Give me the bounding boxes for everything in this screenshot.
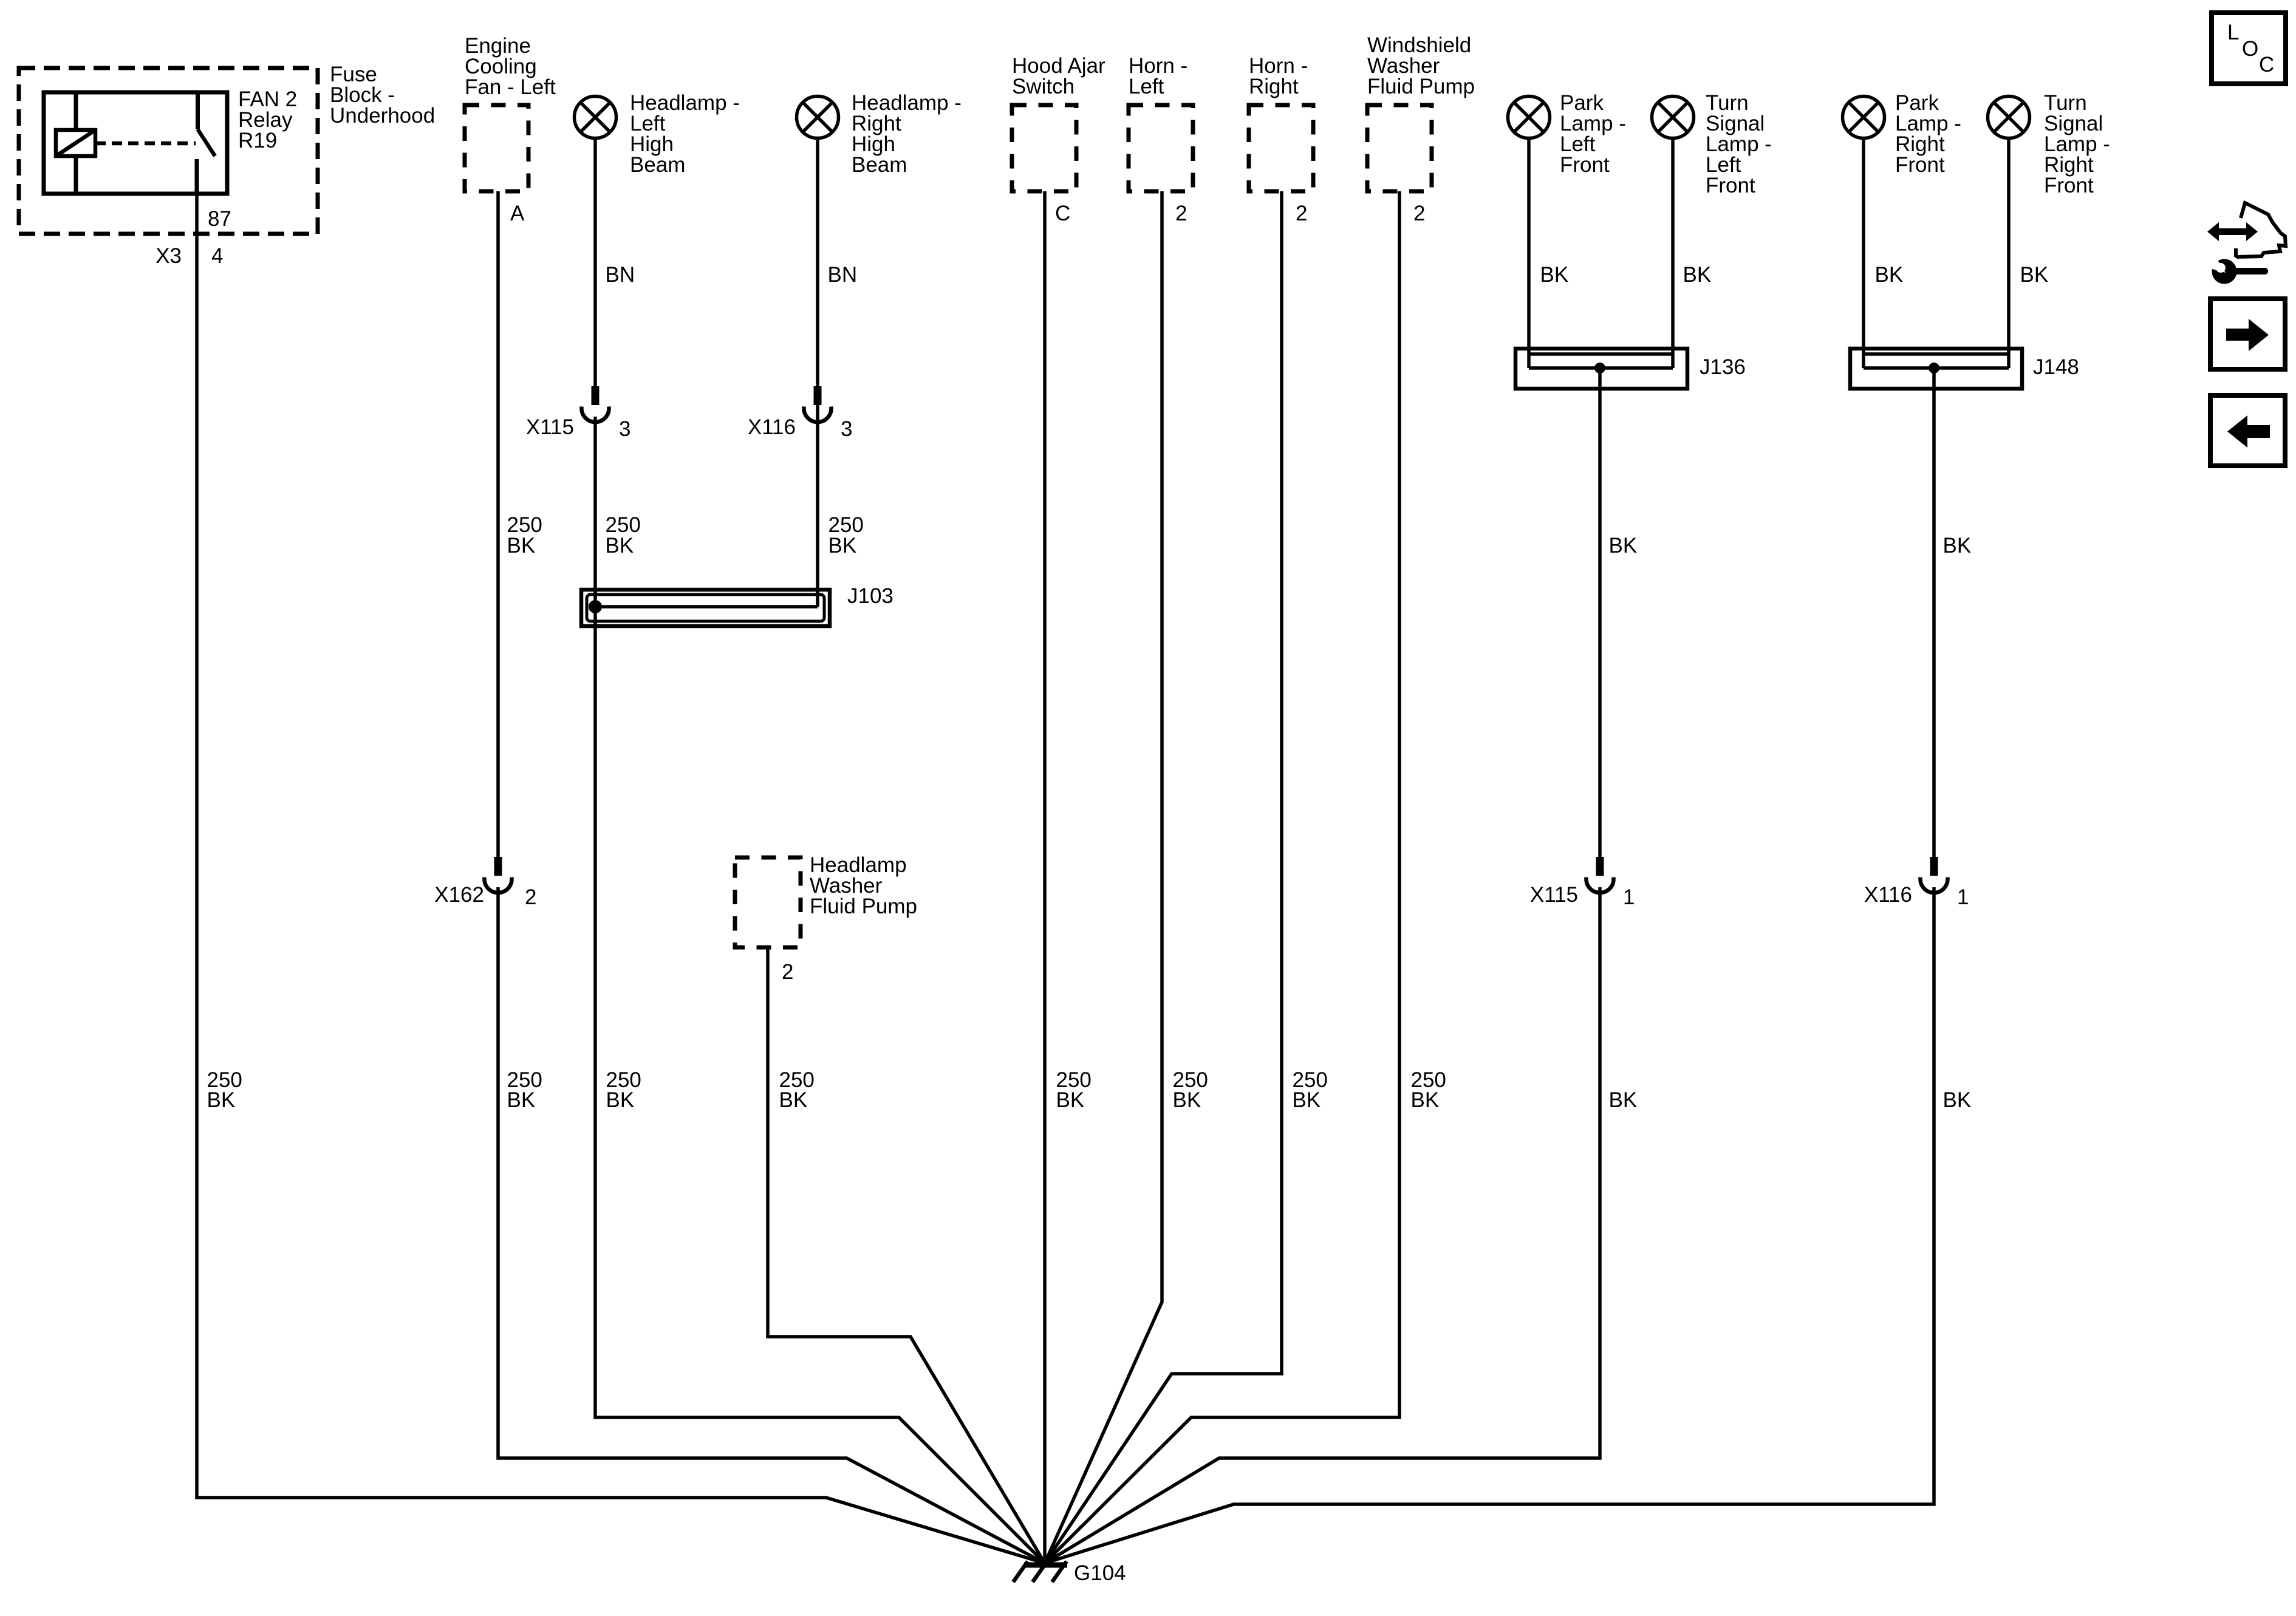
svg-text:BK: BK xyxy=(1173,1088,1201,1112)
svg-text:87: 87 xyxy=(208,207,231,231)
svg-text:3: 3 xyxy=(619,417,630,441)
svg-text:2: 2 xyxy=(1175,202,1187,225)
svg-text:L: L xyxy=(2227,21,2239,44)
svg-text:BK: BK xyxy=(1540,263,1569,287)
svg-text:BK: BK xyxy=(1411,1088,1440,1112)
svg-text:X115: X115 xyxy=(526,415,574,439)
svg-text:J103: J103 xyxy=(847,584,893,608)
svg-text:J148: J148 xyxy=(2033,355,2079,379)
svg-text:Fan - Left: Fan - Left xyxy=(465,75,556,99)
svg-text:4: 4 xyxy=(211,244,223,268)
svg-text:BK: BK xyxy=(1875,263,1904,287)
svg-text:C: C xyxy=(2259,53,2274,77)
svg-text:A: A xyxy=(510,202,525,225)
svg-text:Front: Front xyxy=(2044,174,2094,197)
svg-text:R19: R19 xyxy=(238,129,277,152)
svg-text:Right: Right xyxy=(1249,75,1299,98)
svg-text:BK: BK xyxy=(606,1088,635,1112)
svg-text:BK: BK xyxy=(2020,263,2049,287)
svg-text:Left: Left xyxy=(1129,75,1164,98)
svg-text:2: 2 xyxy=(782,960,793,984)
svg-text:X116: X116 xyxy=(1864,883,1912,907)
svg-text:Fluid Pump: Fluid Pump xyxy=(1367,75,1475,98)
svg-text:X3: X3 xyxy=(155,244,182,268)
svg-text:Beam: Beam xyxy=(852,153,907,177)
svg-text:BK: BK xyxy=(1683,263,1712,287)
svg-text:1: 1 xyxy=(1623,885,1635,909)
svg-text:3: 3 xyxy=(841,417,852,441)
svg-text:2: 2 xyxy=(1413,202,1425,225)
svg-text:BK: BK xyxy=(1609,534,1638,557)
svg-text:Front: Front xyxy=(1706,174,1755,197)
svg-text:2: 2 xyxy=(525,885,536,909)
svg-text:1: 1 xyxy=(1957,885,1969,909)
svg-text:X115: X115 xyxy=(1530,883,1578,907)
svg-text:BK: BK xyxy=(1293,1088,1321,1112)
svg-text:BK: BK xyxy=(606,534,634,557)
svg-text:BK: BK xyxy=(1609,1088,1638,1112)
svg-text:BK: BK xyxy=(1943,534,1972,557)
svg-text:X162: X162 xyxy=(434,883,484,907)
svg-text:BK: BK xyxy=(207,1088,236,1112)
svg-text:X116: X116 xyxy=(748,415,796,439)
svg-text:2: 2 xyxy=(1296,202,1307,225)
svg-text:BK: BK xyxy=(779,1088,808,1112)
svg-text:Front: Front xyxy=(1895,153,1945,177)
svg-text:J136: J136 xyxy=(1700,355,1746,379)
svg-text:Front: Front xyxy=(1560,153,1610,177)
svg-text:BK: BK xyxy=(507,1088,536,1112)
svg-text:O: O xyxy=(2242,37,2258,61)
svg-text:Underhood: Underhood xyxy=(330,104,435,128)
svg-text:BK: BK xyxy=(1943,1088,1972,1112)
svg-text:BN: BN xyxy=(606,263,635,287)
svg-text:BK: BK xyxy=(829,534,857,557)
svg-text:Beam: Beam xyxy=(630,153,685,177)
svg-text:BK: BK xyxy=(507,534,536,557)
svg-text:BN: BN xyxy=(828,263,858,287)
svg-text:BK: BK xyxy=(1056,1088,1085,1112)
svg-text:G104: G104 xyxy=(1074,1561,1126,1585)
svg-text:Fluid Pump: Fluid Pump xyxy=(810,895,917,918)
svg-text:Switch: Switch xyxy=(1012,75,1075,98)
svg-text:C: C xyxy=(1055,202,1070,225)
